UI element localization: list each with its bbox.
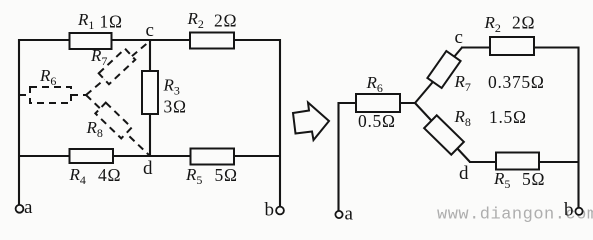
svg-text:R6: R6 [366,73,383,95]
wire: left circuit top (a-side rail through R1, c, R2 to b-side) [19,39,280,41]
wire: dashed lead R6 to delta junction [71,94,87,96]
resistor R4 4Ω [70,149,114,163]
wire: node d to R5 and right rail [469,161,578,163]
svg-text:4Ω: 4Ω [98,165,121,185]
arrow between circuits [293,103,329,141]
terminal b (left circuit) [276,207,284,215]
svg-text:R6: R6 [39,66,56,88]
resistor R6 0.5Ω (right circuit) [356,94,400,112]
wire: left circuit left vertical to terminal a [18,39,20,205]
wire: right circuit left vertical to terminal a [337,102,339,211]
svg-text:R5: R5 [185,165,202,187]
svg-text:R1: R1 [77,10,94,32]
svg-text:R8: R8 [86,118,103,140]
resistor R7 0.375Ω (right circuit, rotated) [427,51,460,88]
svg-text:R5: R5 [493,169,510,191]
svg-text:a: a [345,204,354,225]
wire: dashed diagonal junction to node c (R7 branch) [86,40,151,95]
resistor R5 5Ω (right circuit) [496,153,539,170]
svg-text:5Ω: 5Ω [215,165,238,185]
wire: c-d vertical through R3 [149,40,151,156]
svg-text:R4: R4 [69,165,86,187]
wire: right circuit R6 horizontal [338,102,416,104]
svg-text:c: c [146,20,154,41]
svg-text:0.5Ω: 0.5Ω [358,111,396,131]
resistor R8 1.5Ω (right circuit, rotated) [424,115,464,154]
resistor R8 (dashed, left circuit) [95,103,131,139]
svg-text:0.375Ω: 0.375Ω [488,72,545,92]
svg-text:1.5Ω: 1.5Ω [489,107,527,127]
wire: dashed lead left wire to R6 [19,94,30,96]
svg-text:2Ω: 2Ω [214,11,237,31]
svg-text:5Ω: 5Ω [522,169,545,189]
wire: left circuit right vertical to terminal b [279,39,281,207]
svg-text:d: d [143,158,153,179]
svg-text:b: b [265,200,275,221]
svg-text:1Ω: 1Ω [100,11,123,31]
svg-text:c: c [455,27,463,48]
resistor R3 3Ω [142,71,158,114]
resistor R1 1Ω [70,33,112,49]
svg-text:b: b [564,200,574,221]
svg-text:d: d [459,163,469,184]
svg-text:2Ω: 2Ω [512,13,535,33]
terminal a (left circuit) [16,205,24,213]
wire: Y branch junction to node d [415,103,470,162]
resistor R2 2Ω (left circuit) [190,33,234,49]
terminal b (right circuit) [575,208,582,215]
resistor R5 5Ω (left circuit) [191,149,235,165]
svg-text:R2: R2 [484,13,501,35]
terminal a (right circuit) [335,211,342,218]
wire: right circuit right vertical to terminal b [577,47,579,208]
wire: dashed diagonal junction to node d (R8 branch) [86,95,150,156]
resistor R7 (dashed, left circuit) [99,49,136,85]
svg-text:R3: R3 [163,76,180,98]
resistor R6 (dashed, left circuit) [30,87,71,103]
svg-text:R8: R8 [454,107,471,129]
svg-text:3Ω: 3Ω [164,97,187,117]
svg-text:R2: R2 [187,9,204,31]
svg-text:a: a [24,197,33,218]
svg-text:R7: R7 [454,72,471,94]
wire: node c to R2 and right rail [461,46,578,48]
wire: Y branch junction to node c [415,48,462,104]
resistor R2 2Ω (right circuit) [490,37,534,55]
wire: left circuit bottom (through R4, d, R5) [19,155,280,157]
